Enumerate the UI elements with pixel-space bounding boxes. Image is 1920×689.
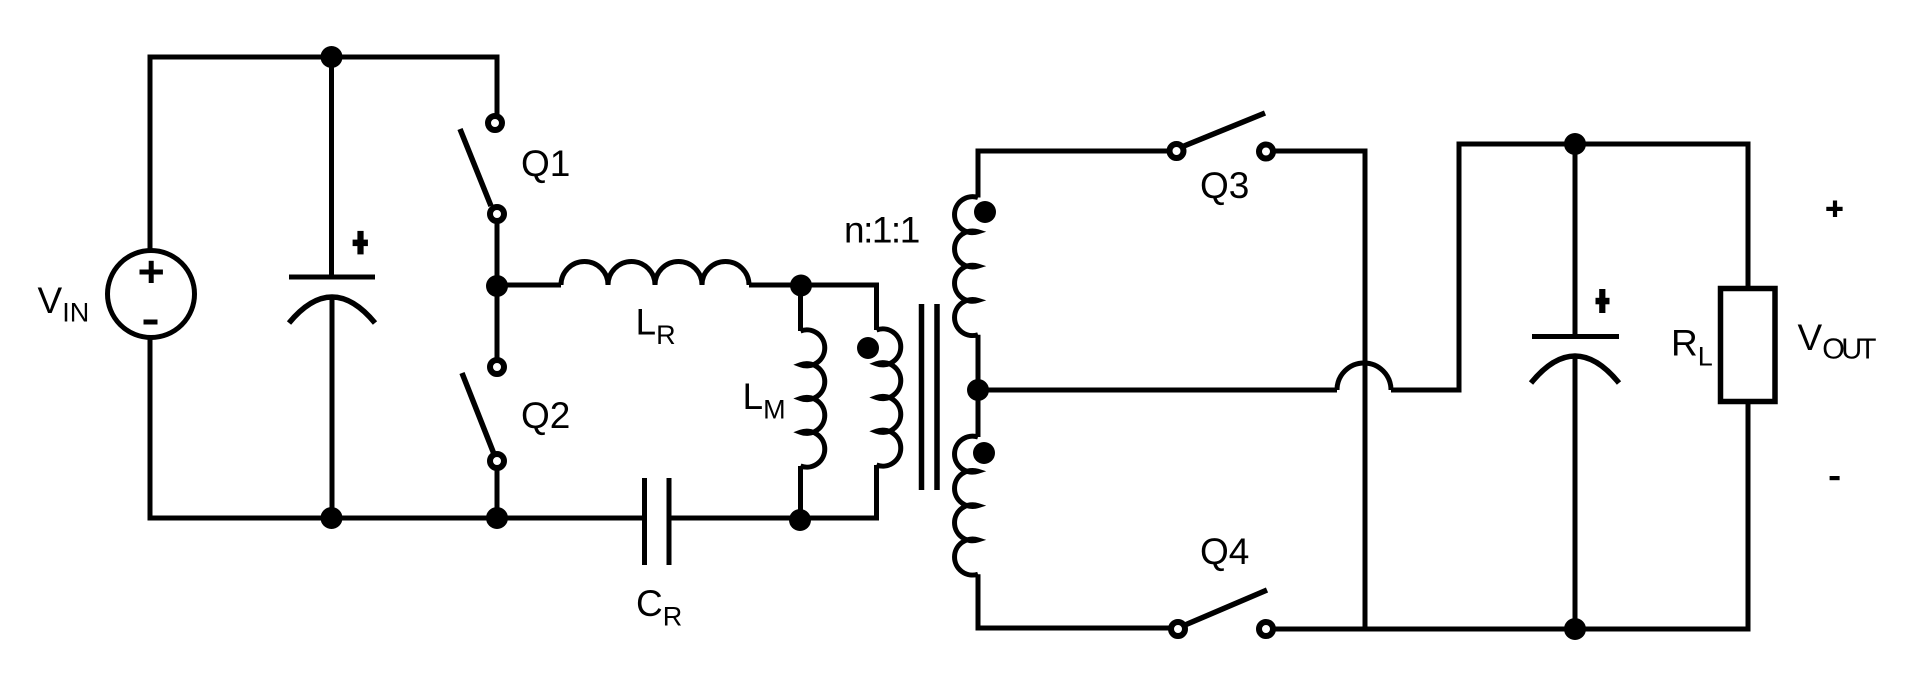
svg-text:Q1: Q1	[521, 143, 570, 184]
svg-text:LR: LR	[636, 302, 676, 350]
svg-text:n:1:1: n:1:1	[844, 209, 919, 250]
svg-text:LM: LM	[743, 376, 786, 425]
svg-text:Q4: Q4	[1200, 531, 1249, 572]
svg-text:VOUT: VOUT	[1798, 317, 1877, 365]
svg-text:RL: RL	[1671, 323, 1713, 372]
svg-text:CR: CR	[636, 583, 682, 631]
svg-text:Q3: Q3	[1200, 165, 1249, 206]
svg-text:Q2: Q2	[521, 395, 570, 436]
svg-text:VIN: VIN	[38, 280, 90, 328]
